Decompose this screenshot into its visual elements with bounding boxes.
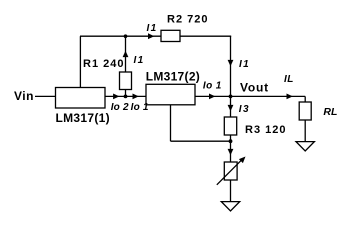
wire RL to ground <box>304 120 306 142</box>
variable resistor body <box>224 162 237 180</box>
ground under variable resistor <box>221 202 239 211</box>
arrow I1 up toward top wire <box>123 51 129 57</box>
wire left vertical feedback <box>79 36 81 87</box>
arrow I1 down on right vertical <box>228 60 234 66</box>
wire LM317(2) adjust pin vertical <box>170 105 172 141</box>
svg-text:I1: I1 <box>147 23 158 34</box>
wire bottom horizontal adjust <box>171 140 231 142</box>
wire between LM317(1) and LM317(2) <box>105 95 146 97</box>
resistor RL body <box>299 102 311 120</box>
op-amp U2 LM317(2) body <box>146 84 195 105</box>
wire LM317(2) output to node Vout <box>195 95 231 97</box>
svg-text:R2 720: R2 720 <box>167 13 208 25</box>
op-amp U1 LM317(1) body <box>56 88 106 109</box>
wire top horizontal from left corner to R2 <box>80 35 161 37</box>
svg-text:R1 240: R1 240 <box>83 58 124 70</box>
wire R1 top vertical <box>125 36 127 72</box>
arrow Io1 <box>133 94 139 100</box>
svg-text:LM317(1): LM317(1) <box>56 111 110 125</box>
arrow I3 down <box>228 105 234 111</box>
svg-text:Io 1: Io 1 <box>131 102 149 113</box>
junction node Io2/Io1 <box>124 95 128 99</box>
wire RL corner vertical <box>304 96 306 102</box>
svg-text:RL: RL <box>323 106 337 118</box>
wire right vertical I1 <box>230 36 232 96</box>
junction node Vout <box>229 95 233 99</box>
variable resistor diagonal arrow <box>217 157 246 185</box>
junction node bottom <box>229 139 233 143</box>
svg-text:I3: I3 <box>239 104 250 115</box>
resistor R1 body <box>120 72 132 90</box>
arrow I1 on top wire <box>148 33 154 39</box>
wire node Vout to RL corner <box>231 95 306 97</box>
arrow down to variable resistor <box>228 149 234 155</box>
junction node at R1 top wire <box>124 34 128 38</box>
svg-text:I1: I1 <box>239 59 250 70</box>
svg-text:Vout: Vout <box>240 81 269 95</box>
arrow IL <box>287 94 293 100</box>
ground under RL <box>296 142 314 151</box>
svg-text:I1: I1 <box>134 55 145 66</box>
arrow Io1 output <box>209 94 215 100</box>
svg-text:Io 1: Io 1 <box>203 81 222 92</box>
wire node Vout down to R3 <box>230 96 232 117</box>
wire bottom node to variable resistor <box>230 141 232 162</box>
wire R1 bottom stub <box>125 90 127 97</box>
svg-text:IL: IL <box>284 74 294 85</box>
wire top horizontal from R2 to right corner <box>180 35 231 37</box>
svg-text:Vin: Vin <box>14 89 34 103</box>
svg-text:Io 2: Io 2 <box>111 102 129 113</box>
resistor R2 body <box>161 30 180 41</box>
svg-text:LM317(2): LM317(2) <box>146 70 200 84</box>
wire Vin input <box>35 95 56 97</box>
resistor R3 body <box>224 117 236 135</box>
svg-text:R3 120: R3 120 <box>245 124 286 136</box>
wire R3 bottom to node <box>230 135 232 141</box>
arrow Io2 <box>113 94 119 100</box>
wire variable resistor to ground <box>230 180 232 202</box>
